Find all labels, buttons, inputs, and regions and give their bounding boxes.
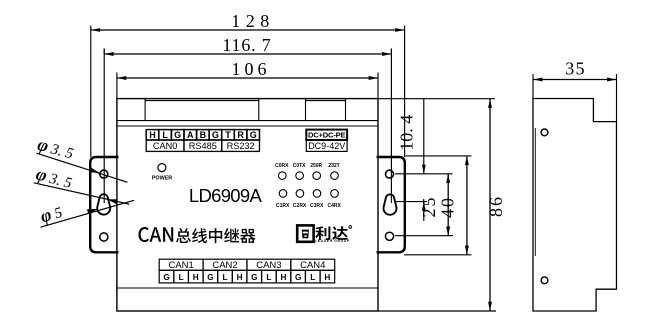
svg-text:128: 128: [231, 11, 275, 31]
svg-text:CAN4: CAN4: [300, 260, 325, 271]
svg-text:G: G: [212, 130, 219, 140]
svg-text:C0RX: C0RX: [275, 163, 289, 169]
svg-text:10. 4: 10. 4: [396, 115, 416, 151]
svg-text:R: R: [237, 130, 244, 140]
svg-text:G: G: [174, 130, 181, 140]
svg-text:G: G: [251, 273, 257, 282]
svg-text:RS485: RS485: [189, 141, 217, 151]
svg-text:106: 106: [232, 59, 271, 79]
svg-text:L: L: [310, 273, 315, 282]
svg-text:40: 40: [437, 196, 457, 218]
svg-text:H: H: [324, 273, 330, 282]
svg-text:CAN0: CAN0: [153, 141, 178, 151]
svg-text:H: H: [281, 273, 287, 282]
svg-text:232T: 232T: [328, 163, 339, 169]
svg-text:DC9-42V: DC9-42V: [308, 141, 345, 151]
svg-text:C3RX: C3RX: [310, 203, 324, 209]
svg-text:L: L: [266, 273, 271, 282]
svg-text:C2RX: C2RX: [293, 203, 307, 209]
svg-text:RS232: RS232: [227, 141, 255, 151]
svg-text:G: G: [295, 273, 301, 282]
svg-text:C1RX: C1RX: [276, 203, 290, 209]
svg-text:H: H: [237, 273, 243, 282]
svg-text:CAN3: CAN3: [256, 260, 281, 271]
svg-text:G: G: [250, 130, 257, 140]
svg-text:L: L: [162, 130, 168, 140]
svg-text:CAN2: CAN2: [212, 260, 237, 271]
svg-text:T: T: [225, 130, 231, 140]
svg-text:H: H: [149, 130, 156, 140]
svg-text:CAN1: CAN1: [168, 260, 193, 271]
svg-text:G: G: [163, 273, 169, 282]
svg-text:H: H: [193, 273, 199, 282]
svg-text:86: 86: [486, 195, 506, 217]
svg-text:250R: 250R: [310, 163, 322, 169]
svg-text:35: 35: [565, 58, 585, 78]
svg-text:DC+DC-PE: DC+DC-PE: [308, 131, 346, 140]
svg-text:A: A: [187, 130, 194, 140]
svg-text:LEADER GROUP: LEADER GROUP: [315, 239, 350, 243]
svg-text:25: 25: [419, 196, 439, 218]
svg-text:B: B: [200, 130, 207, 140]
svg-text:L: L: [223, 273, 228, 282]
svg-text:G: G: [207, 273, 213, 282]
svg-text:R: R: [349, 225, 351, 229]
svg-text:C0TX: C0TX: [293, 163, 306, 169]
svg-text:L: L: [179, 273, 184, 282]
svg-text:LD6909A: LD6909A: [189, 185, 263, 206]
svg-text:C4RX: C4RX: [328, 203, 342, 209]
svg-text:POWER: POWER: [152, 176, 172, 182]
svg-text:116. 7: 116. 7: [222, 35, 271, 55]
